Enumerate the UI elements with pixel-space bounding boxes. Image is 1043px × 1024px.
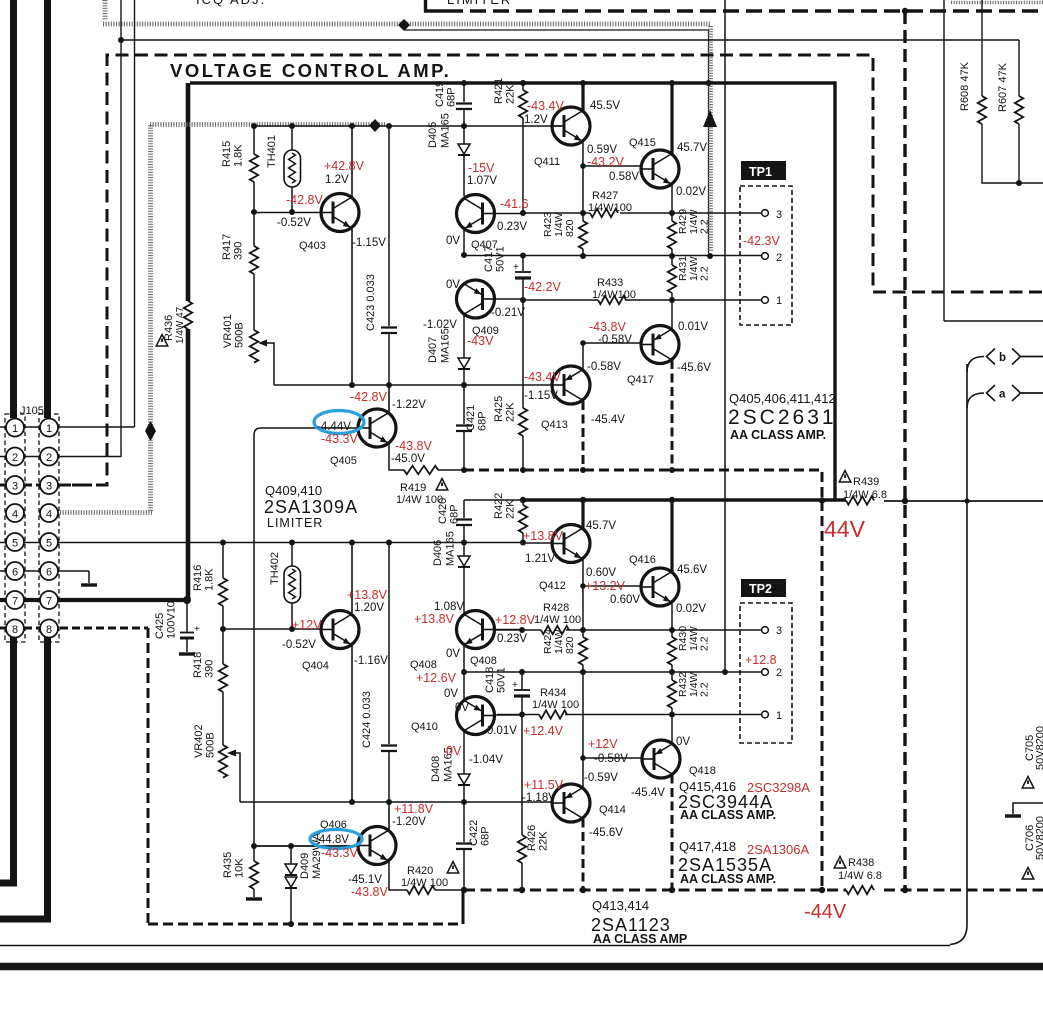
D406 leads	[463, 542, 465, 613]
resistor R438 zigzag	[846, 886, 874, 894]
J105 circle 6b	[40, 562, 58, 580]
svg-text:TP2: TP2	[749, 582, 772, 596]
transistor Q414	[552, 784, 590, 822]
resistor R426 column	[521, 715, 523, 888]
svg-text:C417: C417	[483, 246, 495, 272]
potentiometer VR402 zigzag	[219, 745, 227, 773]
resistor R434 zigzag	[539, 710, 567, 718]
wire vertical x121 to J105-2	[120, 0, 122, 457]
Q405-Q406 base link wire	[254, 428, 370, 846]
transistor Q404 collector wire	[351, 542, 353, 613]
svg-text:R608 47K: R608 47K	[959, 61, 971, 111]
svg-text:TP1: TP1	[749, 165, 772, 179]
svg-text:-0.01V: -0.01V	[483, 725, 517, 737]
svg-text:-42.8V: -42.8V	[286, 193, 323, 207]
svg-text:+11.5V: +11.5V	[524, 778, 564, 792]
capacitor C419 column	[463, 83, 465, 126]
R423 zigzag	[579, 221, 587, 249]
TP2 terminal 2	[762, 669, 769, 676]
capacitor C417	[522, 255, 524, 300]
transistor Q410	[457, 697, 495, 735]
transistor Q407	[457, 195, 495, 233]
J105 circle 8a	[6, 620, 24, 638]
svg-text:AA CLASS AMP.: AA CLASS AMP.	[730, 428, 826, 442]
junction dots rail y83	[461, 80, 467, 86]
svg-text:8: 8	[12, 624, 18, 636]
J105 circle 4b	[40, 504, 58, 522]
svg-text:-1.15V: -1.15V	[352, 237, 386, 249]
Q406 emitter wire + R420 leads	[389, 861, 464, 890]
R426 zigzag	[518, 835, 526, 863]
J105 wire row1 right	[58, 426, 135, 428]
connector a bracket left	[987, 385, 996, 401]
svg-text:1.07V: 1.07V	[467, 175, 497, 187]
svg-text:45.5V: 45.5V	[590, 100, 620, 112]
Q411 base wire	[552, 125, 561, 127]
svg-text:Q405: Q405	[330, 455, 357, 467]
svg-text:100V10: 100V10	[166, 601, 178, 639]
svg-text:1/4W 100: 1/4W 100	[532, 699, 579, 711]
connector a bracket right	[1012, 385, 1021, 401]
svg-text:0V: 0V	[446, 235, 460, 247]
svg-text:R438: R438	[848, 857, 874, 869]
resistor R418 leads	[222, 629, 224, 745]
ground pin6 bar	[81, 583, 97, 586]
svg-text:-1.22V: -1.22V	[392, 399, 426, 411]
svg-text:AA CLASS AMP.: AA CLASS AMP.	[680, 872, 776, 886]
shield stipple left vertical	[148, 125, 153, 512]
R425 zigzag	[519, 408, 527, 436]
svg-text:+13.8V: +13.8V	[414, 612, 455, 626]
TH402 leads	[291, 542, 293, 629]
R435 ground bar	[246, 897, 262, 900]
J105 circle 1a	[6, 419, 24, 437]
J105 wire row1	[0, 426, 58, 428]
resistor R416 column	[222, 542, 224, 629]
svg-text:50V1: 50V1	[496, 667, 508, 693]
svg-text:68P: 68P	[446, 87, 458, 107]
blue mark ellipse Q406	[310, 830, 362, 849]
svg-text:68P: 68P	[480, 826, 492, 846]
dashed border x822 lower	[821, 501, 824, 890]
VR401 wiper wire	[267, 343, 274, 385]
svg-text:R434: R434	[540, 687, 566, 699]
svg-text:390: 390	[233, 242, 245, 260]
svg-text:0.23V: 0.23V	[497, 633, 527, 645]
svg-text:2: 2	[776, 667, 782, 679]
svg-text:22K: 22K	[505, 84, 517, 104]
junction dots wire1 bottom	[519, 712, 525, 718]
junction dots rail y126	[251, 123, 257, 129]
svg-text:D409: D409	[299, 853, 311, 879]
C417 plates	[515, 271, 531, 273]
svg-text:VOLTAGE CONTROL AMP.: VOLTAGE CONTROL AMP.	[170, 60, 451, 81]
svg-text:0V: 0V	[446, 744, 462, 758]
J105 dashed housing col1	[5, 414, 25, 642]
svg-text:TH401: TH401	[266, 135, 278, 168]
transistor Q405 collector wire	[388, 385, 390, 413]
Q409 collector wire	[463, 315, 465, 359]
svg-text:+: +	[194, 624, 200, 635]
wire vertical x134 to J105-1	[134, 0, 136, 427]
svg-text:1: 1	[776, 710, 782, 722]
capacitor C424 column	[388, 542, 390, 802]
TH401 zigzag	[289, 153, 296, 183]
svg-text:-43.8V: -43.8V	[589, 320, 626, 334]
Q410 collector wire down	[463, 731, 465, 774]
thick ground-bus top rail y83	[190, 83, 835, 500]
svg-text:-43.4V: -43.4V	[527, 99, 564, 113]
lower dashed box bottom	[148, 923, 463, 926]
rail y212 Q403 base wire	[254, 212, 322, 214]
Q407 emitter wire	[463, 229, 465, 255]
lower dashed box left x148	[147, 628, 150, 924]
junction dots y846	[251, 843, 257, 849]
resistor R431	[671, 256, 673, 300]
svg-text:-0.59V: -0.59V	[584, 772, 618, 784]
C425 plates	[180, 632, 194, 634]
svg-text:MA165: MA165	[440, 113, 452, 148]
resistor R439 zigzag	[846, 496, 874, 504]
svg-text:a: a	[999, 389, 1006, 401]
R424 zigzag	[579, 637, 587, 665]
R438 warning	[834, 857, 846, 869]
shield arrow	[703, 110, 717, 127]
svg-text:-0.58V: -0.58V	[598, 334, 632, 346]
svg-text:D408: D408	[430, 756, 442, 782]
junction dots y629	[220, 626, 226, 632]
svg-text:-45.0V: -45.0V	[391, 453, 425, 465]
heavy bus line left outer lower	[0, 637, 14, 883]
svg-text:-43.3V: -43.3V	[321, 846, 358, 860]
svg-text:3: 3	[12, 481, 18, 493]
shielded wire inner conductor top	[405, 30, 709, 253]
svg-text:D407: D407	[427, 337, 439, 363]
svg-text:Q415: Q415	[629, 137, 656, 149]
svg-text:VR402: VR402	[193, 724, 205, 758]
J105 wire row2	[0, 456, 121, 458]
C420 plates	[456, 520, 472, 526]
svg-text:MA165: MA165	[445, 531, 457, 566]
svg-text:2: 2	[776, 252, 782, 264]
svg-text:2.2: 2.2	[699, 636, 711, 651]
connector b wire	[1021, 356, 1043, 358]
Q414 emitter-up wire	[582, 758, 584, 788]
Q416 base wire	[583, 585, 643, 587]
svg-text:45.6V: 45.6V	[677, 564, 707, 576]
svg-text:1/4W 100: 1/4W 100	[401, 877, 448, 889]
resistor R436 zigzag	[184, 301, 192, 329]
svg-text:R422: R422	[493, 493, 505, 519]
resistor R435 column	[253, 846, 255, 897]
svg-text:+13.8V: +13.8V	[523, 529, 564, 543]
capacitor C423 column	[388, 126, 390, 385]
svg-text:0V: 0V	[446, 279, 460, 291]
svg-text:C425: C425	[154, 613, 166, 639]
J105 wire row8 dashed	[0, 627, 148, 630]
VR401 wiper arrow	[258, 340, 267, 347]
svg-text:1/4W 47: 1/4W 47	[175, 306, 186, 344]
svg-text:0.60V: 0.60V	[586, 567, 616, 579]
svg-text:C424 0.033: C424 0.033	[361, 691, 373, 748]
svg-text:-41.6: -41.6	[500, 197, 529, 211]
svg-text:R420: R420	[407, 865, 433, 877]
heavy bus line left inner	[44, 0, 51, 418]
svg-text:2: 2	[12, 452, 18, 464]
svg-text:b: b	[999, 352, 1006, 364]
node dot Q411 emitter	[580, 163, 586, 169]
J105 circle 1b	[40, 419, 58, 437]
junction dots wire1 top	[520, 297, 526, 303]
J105 wire row3 dashed	[0, 484, 107, 487]
x583 link wire2b to Q414	[582, 672, 584, 758]
svg-text:-0.21V: -0.21V	[491, 307, 525, 319]
svg-text:R425: R425	[493, 396, 505, 422]
inner dashed border bottom y470	[464, 470, 822, 501]
resistor R432	[671, 672, 673, 714]
svg-text:LIMITER: LIMITER	[267, 516, 323, 530]
svg-text:Q410: Q410	[411, 721, 438, 733]
thick junction dot row7	[183, 596, 191, 604]
svg-text:-1.18V: -1.18V	[522, 792, 556, 804]
wire2 top (to TP1-2)	[464, 255, 762, 257]
TP2 dashed box	[740, 603, 792, 743]
svg-text:Q403: Q403	[299, 240, 326, 252]
svg-text:-43.8V: -43.8V	[351, 885, 388, 899]
junction dot x905 y11	[902, 8, 908, 14]
D409 leads	[290, 846, 292, 924]
thermistor TH401 capsule	[284, 150, 301, 187]
transistor Q411 collector thick wire	[581, 83, 584, 111]
svg-text:-44.8V: -44.8V	[315, 834, 349, 846]
thin vertical x944	[943, 0, 945, 321]
svg-text:1.2V: 1.2V	[325, 174, 349, 186]
svg-text:R415: R415	[221, 141, 233, 167]
svg-text:390: 390	[204, 660, 216, 678]
dot Q414 node	[580, 755, 586, 761]
svg-text:50V8200: 50V8200	[1035, 726, 1043, 770]
junction dots wire2 bottom	[461, 669, 467, 675]
junction dots wire3 bottom	[519, 627, 525, 633]
junction dots rail y500	[520, 497, 526, 503]
junction dots rail y542	[220, 540, 226, 546]
link dashed rail to box bottom	[462, 888, 465, 924]
svg-text:-43.4V: -43.4V	[524, 370, 561, 384]
svg-text:Q413: Q413	[541, 419, 568, 431]
R419 warning	[436, 479, 448, 491]
svg-text:22K: 22K	[505, 499, 517, 519]
VR402 wiper arrow	[227, 750, 236, 757]
R431 zigzag	[668, 265, 676, 293]
svg-text:-43V: -43V	[467, 334, 494, 348]
svg-text:50V8200: 50V8200	[1035, 816, 1043, 860]
resistor R608 column	[982, 0, 1043, 183]
svg-text:+12.8V: +12.8V	[495, 613, 536, 627]
svg-text:2.2: 2.2	[699, 266, 711, 281]
Q417 collector dashed wire	[671, 360, 674, 470]
svg-text:10K: 10K	[234, 858, 246, 878]
resistor R425 column	[522, 300, 524, 470]
thick rail y500	[464, 499, 522, 501]
svg-text:+12.6V: +12.6V	[416, 671, 457, 685]
TP1 black box	[741, 161, 786, 180]
svg-text:3: 3	[776, 209, 782, 221]
svg-text:1.8K: 1.8K	[204, 568, 216, 591]
shield sparkle	[369, 119, 381, 132]
wire y846 Q406 base	[254, 845, 358, 847]
svg-text:2.2: 2.2	[699, 219, 711, 234]
Q413 emitter-up wire	[582, 343, 584, 370]
svg-text:820: 820	[564, 636, 576, 654]
TH401 leads	[291, 126, 293, 212]
svg-text:22K: 22K	[505, 402, 517, 422]
capacitor C422	[463, 802, 465, 888]
svg-text:45.7V: 45.7V	[586, 520, 616, 532]
C425 ground bar	[179, 652, 195, 655]
svg-text:-45.6V: -45.6V	[589, 827, 623, 839]
C705 warning	[1022, 777, 1034, 789]
resistor R421 column	[522, 83, 524, 213]
transistor Q403 collector wire	[351, 126, 353, 197]
Q411 emitter to wire3	[582, 166, 584, 213]
Q413 collector dashed wire	[582, 401, 585, 470]
Q408 emitter wire	[463, 645, 465, 672]
TP2 terminal 1	[762, 711, 769, 718]
transistor Q403	[321, 194, 359, 232]
svg-text:2SA1309A: 2SA1309A	[264, 497, 358, 517]
J105 circle 5a	[6, 533, 24, 551]
svg-text:7: 7	[46, 596, 52, 608]
C423 plates	[381, 328, 397, 334]
svg-text:C418: C418	[484, 667, 496, 693]
svg-text:-0.58V: -0.58V	[587, 361, 621, 373]
svg-text:0.58V: 0.58V	[609, 171, 639, 183]
Q415 emitter wire	[671, 185, 673, 214]
svg-text:8: 8	[46, 624, 52, 636]
svg-text:3: 3	[46, 481, 52, 493]
transistor Q404	[321, 611, 359, 649]
TP1 terminal 2	[762, 253, 769, 260]
svg-text:0.02V: 0.02V	[676, 603, 706, 615]
svg-text:2.2: 2.2	[699, 682, 711, 697]
Q410 emitter wire up	[463, 672, 465, 700]
svg-text:2SC2631: 2SC2631	[728, 406, 837, 429]
diode D409 pair	[285, 864, 297, 875]
TH402 zigzag	[289, 569, 296, 599]
svg-text:R428: R428	[543, 602, 569, 614]
transistor Q409	[457, 280, 495, 318]
transistor Q408	[457, 611, 495, 649]
svg-text:0.01V: 0.01V	[678, 321, 708, 333]
svg-text:-1.16V: -1.16V	[354, 655, 388, 667]
resistor R427 zigzag	[590, 209, 618, 217]
dashed border vertical x905	[903, 11, 906, 888]
svg-text:1/4W 6.8: 1/4W 6.8	[843, 489, 887, 501]
svg-text:+42.8V: +42.8V	[324, 159, 365, 173]
shield crossing blotch	[398, 19, 410, 31]
svg-text:68P: 68P	[477, 411, 489, 431]
svg-text:R421: R421	[493, 78, 505, 104]
junction dots rail y890	[461, 887, 467, 893]
R436 warning	[156, 335, 168, 347]
Q409 base wire	[495, 298, 524, 300]
C421 plates	[456, 426, 472, 432]
node dot y40	[118, 37, 124, 43]
transistor Q411	[552, 107, 590, 145]
J105 circle 4a	[6, 504, 24, 522]
svg-text:0.23V: 0.23V	[497, 221, 527, 233]
svg-text:R416: R416	[192, 565, 204, 591]
junction dots y470	[461, 467, 467, 473]
svg-text:22K: 22K	[538, 831, 550, 851]
svg-text:7: 7	[12, 596, 18, 608]
Q416 emitter wire	[671, 603, 673, 631]
svg-text:1.21V: 1.21V	[525, 553, 555, 565]
svg-text:-1.02V: -1.02V	[423, 319, 457, 331]
svg-text:R435: R435	[222, 852, 234, 878]
Q412 emitter to wire3b	[582, 586, 584, 630]
TP1 dashed box	[740, 186, 792, 325]
svg-text:1: 1	[12, 423, 18, 435]
Q410 base wire	[495, 714, 523, 716]
right ground wire	[1013, 803, 1043, 814]
capacitor C418	[521, 672, 523, 715]
svg-text:+: +	[512, 680, 518, 691]
Q415 collector thick wire	[670, 83, 673, 154]
svg-text:R439: R439	[853, 476, 879, 488]
C418 plates	[514, 689, 530, 691]
svg-text:-43.8V: -43.8V	[395, 439, 432, 453]
svg-text:MA165: MA165	[440, 328, 452, 363]
resistor R415 zigzag	[250, 154, 258, 182]
J105 dashed housing col2	[39, 414, 59, 642]
heavy bottom rule	[0, 963, 1043, 971]
shield stipple to J105-4	[60, 510, 152, 515]
svg-text:D405: D405	[427, 122, 439, 148]
J105 circle 8b	[40, 620, 58, 638]
svg-text:3: 3	[776, 625, 782, 637]
svg-text:1/4W100: 1/4W100	[592, 289, 636, 301]
wire3 bottom (to TP2-3)	[494, 629, 762, 631]
svg-text:Q413,414: Q413,414	[592, 898, 649, 913]
D408 lead	[463, 785, 465, 802]
svg-text:+12V: +12V	[588, 737, 618, 751]
R422 zigzag	[519, 505, 527, 533]
shield stipple left run	[150, 122, 386, 127]
resistor R422 column	[522, 500, 524, 542]
transistor Q416	[641, 568, 679, 606]
svg-text:5: 5	[12, 538, 18, 550]
svg-text:R436: R436	[163, 315, 175, 341]
junction dots wire2 top	[461, 252, 467, 258]
svg-text:1/4W 100: 1/4W 100	[534, 614, 581, 626]
transistor Q406 collector wire	[388, 802, 390, 830]
svg-text:-45.4V: -45.4V	[631, 787, 665, 799]
wire y629 Q404 base	[223, 628, 322, 630]
transistor Q413	[552, 366, 590, 404]
svg-text:-42.3V: -42.3V	[743, 234, 780, 248]
resistor R417 leads	[253, 212, 255, 330]
top-right corner stipple	[951, 1, 1043, 4]
C419 plates	[456, 104, 472, 110]
heavy bus line left inner lower	[0, 637, 48, 919]
ground pin6 stem	[88, 571, 90, 583]
svg-text:C420: C420	[437, 498, 449, 524]
svg-text:45.7V: 45.7V	[677, 142, 707, 154]
D407 lead	[463, 369, 465, 385]
R416 zigzag	[219, 578, 227, 606]
svg-text:LIMITER: LIMITER	[447, 0, 512, 7]
